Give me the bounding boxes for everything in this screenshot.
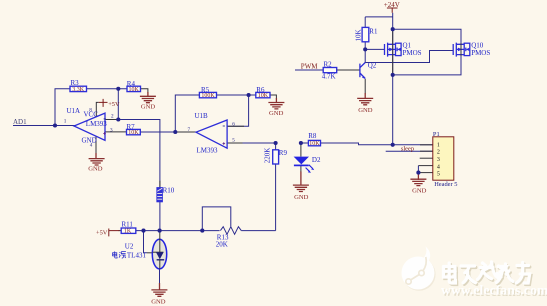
svg-text:LM393: LM393 [197,146,219,154]
svg-text:R10: R10 [163,186,175,194]
svg-text:20K: 20K [216,240,228,248]
svg-text:GND: GND [151,298,166,305]
svg-text:PWM: PWM [301,63,319,71]
svg-text:+5V: +5V [108,101,120,108]
svg-text:1K: 1K [124,229,132,235]
svg-text:10K: 10K [309,141,320,147]
svg-text:P1: P1 [433,131,440,138]
svg-text:8: 8 [89,107,92,113]
svg-text:1: 1 [64,119,67,125]
svg-text:GND: GND [412,187,427,194]
svg-text:1: 1 [437,143,440,149]
svg-text:GND: GND [269,110,284,117]
svg-text:10K: 10K [128,130,139,136]
svg-text:PMOS: PMOS [403,49,422,57]
svg-text:GND: GND [358,107,373,114]
svg-text:LM393: LM393 [86,120,108,128]
svg-text:R2: R2 [324,60,333,68]
svg-text:GND: GND [141,103,156,110]
svg-text:4: 4 [437,164,440,170]
svg-text:AD1: AD1 [13,118,27,126]
svg-text:5: 5 [437,172,440,178]
svg-text:Q2: Q2 [368,61,377,69]
svg-text:100K: 100K [201,93,215,99]
svg-text:3: 3 [110,127,113,133]
svg-text:R8: R8 [308,132,317,140]
svg-text:10K: 10K [129,87,140,93]
svg-text:7: 7 [188,127,191,133]
svg-text:4.7K: 4.7K [322,72,336,80]
svg-text:GND: GND [88,166,103,173]
svg-text:R1: R1 [369,28,378,36]
svg-text:220K: 220K [264,148,272,164]
svg-text:PMOS: PMOS [471,49,490,57]
svg-text:10K: 10K [354,29,362,41]
svg-text:U1B: U1B [195,112,209,120]
svg-text:3: 3 [437,157,440,163]
svg-text:sleep: sleep [401,146,414,153]
svg-text:3.3K: 3.3K [72,87,85,93]
svg-text:TL431: TL431 [127,251,147,259]
svg-text:6: 6 [232,121,235,127]
svg-text:D2: D2 [312,156,321,164]
svg-text:2: 2 [437,150,440,156]
svg-text:Header 5: Header 5 [434,181,457,188]
svg-text:10K: 10K [258,93,269,99]
svg-text:U2: U2 [125,242,134,250]
svg-text:U1A: U1A [67,107,81,115]
svg-text:5: 5 [232,137,235,143]
svg-text:2: 2 [111,114,114,120]
svg-text:R11: R11 [122,220,134,228]
svg-text:www.elecfans.com: www.elecfans.com [441,283,547,298]
svg-text:+5V: +5V [96,229,108,236]
svg-text:GND: GND [294,194,309,201]
svg-text:4: 4 [90,142,93,148]
svg-text:R9: R9 [279,149,288,157]
svg-text:+24V: +24V [384,1,400,9]
